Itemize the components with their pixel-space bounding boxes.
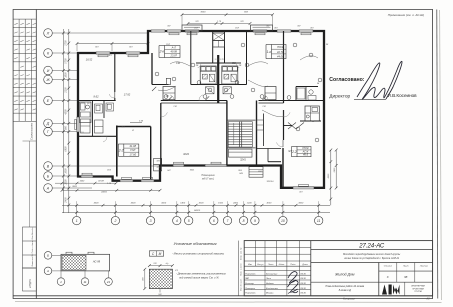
legend symbol CM [149,251,163,256]
kitchen unit cluster [222,66,238,84]
svg-text:1800: 1800 [66,72,68,78]
interior wall left block horizontal corridor [78,100,116,102]
closet boxes near x156 [154,159,162,165]
svg-text:09.16: 09.16 [300,288,306,290]
door leaf with swing arc [160,110,162,117]
axis circle Ж (left) [44,75,53,84]
axis circle И (left) [44,66,53,75]
vent shafts top middle [213,33,225,41]
svg-text:СМ: СМ [262,106,265,108]
svg-text:Володейко переоборудование жил: Володейко переоборудование жилого дома 8… [343,253,400,256]
window, main top wall [185,30,199,33]
svg-text:План-отделочных работ 2А этажа: План-отделочных работ 2А этажа [326,285,365,288]
svg-text:2700: 2700 [66,40,68,47]
axis circle Г (left) [44,127,53,136]
svg-text:Кол.уч: Кол.уч [257,264,264,266]
inner frame left margin line [35,10,37,299]
svg-text:Ж: Ж [45,78,50,82]
bath right block fixtures [297,88,305,99]
svg-text:ОКОН: ОКОН [98,181,104,183]
svg-text:2: 2 [113,219,116,223]
apartment info box [272,45,287,59]
svg-text:Проверил: Проверил [245,288,256,290]
svg-text:- Место установки стиральной м: - Место установки стиральной машины [172,252,224,256]
svg-text:СКЛ: СКЛ [194,28,199,30]
svg-text:- Демонтаж элементов, располож: - Демонтаж элементов, расположенных [176,272,226,276]
svg-text:Разработ.: Разработ. [245,293,256,295]
stage/list header [379,270,433,272]
window, main top wall [151,30,165,33]
svg-text:Директор: Директор [329,94,350,100]
svg-text:Согласовано:: Согласовано: [329,77,364,83]
apartment info box [165,46,181,58]
right block bath walls [296,86,318,88]
window, middle bottom wall [173,164,184,167]
svg-text:44.08: 44.08 [277,55,284,59]
dim line under left-bottom wall [55,182,116,184]
svg-text:Инв. № подл.: Инв. № подл. [240,278,243,291]
shaft strip right of stair [263,114,265,147]
axis circle 4 (bottom) [173,216,181,224]
svg-text:3000: 3000 [266,203,272,205]
svg-text:И.В.Косеинов: И.В.Косеинов [388,93,418,98]
svg-text:7: 7 [227,219,229,223]
svg-text:24000: 24000 [100,191,108,194]
svg-text:2400: 2400 [333,167,336,173]
title block outer [244,241,432,296]
svg-text:46.6: 46.6 [303,153,309,157]
bathroom cluster left block [80,102,92,123]
svg-text:42.70: 42.70 [277,50,284,54]
svg-text:8: 8 [243,219,245,223]
svg-text:ГАП: ГАП [245,277,249,280]
bottom horizontal dimension chains [62,204,330,206]
svg-text:3000: 3000 [199,203,205,205]
plan outer wall outline [78,31,324,188]
svg-text:5: 5 [188,219,190,223]
top dimension line [182,14,273,16]
svg-text:1200: 1200 [66,179,68,185]
lower middle walls near stair exit [268,161,281,163]
svg-text:И: И [47,69,50,73]
signature flourish [357,63,385,100]
svg-text:Н.контр.: Н.контр. [245,283,254,285]
svg-text:1400: 1400 [180,202,186,205]
svg-text:Стадия: Стадия [384,264,393,267]
axis circle А (left) [44,184,53,193]
right block partition vertical [283,31,285,103]
svg-text:Линь: Линь [265,278,271,280]
svg-text:АСЖ: АСЖ [302,149,309,153]
lower-left room top wall [117,126,151,128]
svg-text:2100: 2100 [66,87,68,94]
svg-text:ПОЖ: ПОЖ [277,45,284,49]
svg-text:СМ: СМ [173,106,176,108]
key plan outline [61,254,110,271]
stair stringer rails [238,122,240,148]
svg-text:№док.: №док. [279,263,286,266]
axis circle Д (left) [44,119,53,128]
lower-left room right wall [150,127,152,180]
doc number box [311,249,433,251]
logo glyph [382,285,387,295]
svg-text:49.98: 49.98 [171,50,178,54]
wall between lower-left rooms [116,126,118,177]
door leaf with swing arc [282,140,284,147]
window, middle bottom wall [205,164,227,167]
door leaf with swing arc [101,135,107,137]
axis circle 9 (bottom) [251,216,259,224]
svg-text:ПРОЕКТНАЯ: ПРОЕКТНАЯ [412,287,424,290]
window, left block bottom wall [81,175,93,178]
svg-text:Копировал: Копировал [343,297,356,300]
svg-text:2.2: 2.2 [291,150,297,154]
svg-text:м/б (7 зап.): м/б (7 зап.) [202,178,214,181]
svg-text:ЗК0ЛЫ: ЗК0ЛЫ [267,181,274,183]
svg-text:2400: 2400 [65,197,68,204]
svg-text:2-к: 2-к [159,50,165,54]
left block small rooms walls [92,101,94,137]
window on left wall (vertical) [77,117,80,132]
right vertical dimension chain (lower only) [330,150,332,205]
dim line below left block [62,189,160,191]
svg-text:1000: 1000 [66,168,68,174]
window, main top wall [277,30,291,33]
axis circle Е (left) [44,96,53,105]
left vertical dimension chain [62,29,64,213]
svg-text:Л: Л [46,31,50,35]
svg-text:СКЛ: СКЛ [235,28,240,30]
window, left block top wall [96,52,110,55]
window, main top wall [299,30,313,33]
description box [311,262,433,264]
svg-text:2400: 2400 [232,202,239,205]
svg-text:17.82: 17.82 [124,93,131,97]
svg-text:ЗОЗ: ЗОЗ [107,169,112,171]
balcony bump top 1 [182,25,202,31]
stairwell walls [226,101,228,166]
wall x161 middle-left separation [160,103,162,166]
landing line [227,119,256,121]
stair treads [228,121,252,123]
axis circle 3 (bottom) [146,216,154,224]
door leaf with swing arc [196,62,201,64]
svg-text:41.08: 41.08 [130,144,137,148]
svg-text:Изм: Изм [248,264,252,266]
svg-text:8060: 8060 [201,12,207,14]
firm text lines [404,282,406,296]
svg-text:Подп.и дата: Подп.и дата [31,240,34,254]
svg-text:09.16: 09.16 [300,283,306,285]
axis circle 2 (bottom) [111,216,119,224]
svg-text:24000: 24000 [193,209,201,212]
svg-text:Подп. и дата: Подп. и дата [240,263,243,276]
svg-text:Б: Б [47,254,49,258]
change table grid [244,246,311,248]
svg-text:3241: 3241 [240,157,246,161]
door leaf with swing arc [283,110,285,117]
svg-text:16.52: 16.52 [86,58,93,62]
left margin stamp table [18,19,20,121]
apartment info box [297,147,311,157]
svg-text:1500: 1500 [218,203,224,205]
svg-text:Дата: Дата [301,264,308,266]
svg-text:Ж: Ж [131,130,134,132]
svg-text:Условные обозначения: Условные обозначения [173,241,217,246]
svg-text:6: 6 [213,219,215,223]
svg-text:5700: 5700 [66,58,68,64]
svg-text:09.16: 09.16 [300,293,306,295]
small duct box at end of y84 wall [152,84,169,86]
svg-text:ПОЖ: ПОЖ [302,146,309,150]
secondary top dims [188,23,250,25]
axis circle Л (left) [44,29,53,38]
firm cell with logo [379,281,433,283]
door leaf with swing arc [114,92,116,98]
svg-text:Москва: Москва [266,293,274,295]
svg-text:9: 9 [254,219,256,223]
key plan top bumps [66,252,72,254]
bottom inner frame line [13,295,433,297]
key plan bottom circles [57,278,65,286]
axis circle 5 (bottom) [185,216,193,224]
axis circle 11 (bottom) [315,216,323,224]
svg-text:1: 1 [76,219,78,223]
svg-text:3600: 3600 [131,203,137,205]
door leaf with swing arc [199,100,205,102]
change table header [244,265,311,267]
svg-text:А-Л: А-Л [171,46,177,50]
wall x152 upper separation [151,53,153,85]
key plan axis circle А [44,267,52,275]
svg-text:ЖЗ: ЖЗ [120,127,125,129]
svg-text:ГРУППА: ГРУППА [414,290,422,293]
paper edge shadow [440,10,442,300]
svg-text:А: А [46,269,49,273]
axis circle 10 (bottom) [279,216,287,224]
title block vertical main divisions [310,241,312,296]
interior wall left block vertical [114,53,116,92]
svg-text:ГОЛ: ГОЛ [130,148,135,152]
svg-text:Кондаленко: Кондаленко [266,287,279,290]
key plan hatched part [62,255,86,270]
door leaf with swing arc [262,100,268,102]
signature rows [244,269,311,271]
svg-text:6900: 6900 [66,146,68,152]
svg-text:Взам.инв.№: Взам.инв.№ [31,254,34,267]
door leaf with swing arc [236,62,241,64]
svg-text:9031: 9031 [190,170,195,172]
svg-text:8.62: 8.62 [93,95,99,99]
svg-text:09.16: 09.16 [300,273,306,275]
svg-text:11: 11 [317,219,321,223]
big signature scribbles in sig column [288,272,297,283]
svg-text:8-этаж 1-Д: 8-этаж 1-Д [339,290,352,292]
svg-text:1200: 1200 [247,203,253,205]
stair arrow line [233,123,235,145]
svg-text:27РД/Ус: 27РД/Ус [29,278,32,289]
step wall at 148 [147,31,149,53]
wc small rects [106,103,114,111]
svg-text:М: М [159,252,162,256]
svg-text:Листов: Листов [419,265,429,267]
axis circle В (left) [44,162,53,171]
axis circle К (left) [44,49,53,58]
kitchen-bath horizontal wall [196,62,241,64]
svg-text:Инв.№подл.: Инв.№подл. [31,227,34,240]
svg-text:Лист: Лист [402,265,409,267]
apartment info box [124,144,139,156]
svg-text:3000: 3000 [161,203,167,205]
stamp table scribbles [14,23,17,24]
radiators [98,55,108,57]
window, main top wall [253,30,267,33]
svg-text:Согласованно: Согласованно [30,122,34,140]
kitchen unit cluster [200,66,216,84]
leader curves [248,62,268,66]
svg-text:ИНЖЕНЕРНАЯ: ИНЖЕНЕРНАЯ [411,285,425,288]
left margin attribute boxes [23,227,37,268]
svg-text:98: 98 [404,275,408,279]
svg-text:ЖЗ: ЖЗ [107,55,112,57]
svg-text:2-2: 2-2 [118,148,124,152]
svg-text:Взам. инв. №: Взам. инв. № [240,247,243,260]
svg-text:жилых домов по ул.Гвардейской: жилых домов по ул.Гвардейской г. Бреста … [343,257,400,260]
svg-text:11: 11 [83,280,86,284]
svg-text:А: А [46,186,50,190]
extension stubs above bottom dim line [76,201,78,205]
svg-text:21: 21 [106,280,111,284]
entrance door leafs (diagonal) [168,96,172,100]
svg-text:3243: 3243 [183,152,189,156]
axis circle 1 (bottom) [73,216,81,224]
door leaf with swing arc [168,100,174,102]
window on lower-left room top wall [130,122,142,124]
window, main top wall [167,30,181,33]
svg-text:Д: Д [46,122,50,126]
middle block vertical partitions [190,31,192,85]
svg-text:Жилой Дом: Жилой Дом [334,273,355,277]
svg-text:09.16: 09.16 [300,278,306,280]
svg-text:Подп.: Подп. [290,263,296,266]
svg-text:М.П: М.П [87,103,91,105]
svg-text:Лист: Лист [267,264,274,266]
right block wall y121 [300,120,321,122]
svg-text:4: 4 [176,219,178,223]
vestibule box below stair [229,149,253,157]
porch steps at entrance [249,167,263,178]
left margin empty box divider [28,141,30,227]
right block wall y125 stub [284,125,293,127]
axis circle 7 (bottom) [223,216,231,224]
svg-text:17.60: 17.60 [130,152,137,156]
svg-text:Примечания (см. л. АС-Ш): Примечания (см. л. АС-Ш) [388,13,424,17]
svg-text:под схемой выше марки См. и Ж: под схемой выше марки См. и Ж [179,276,219,280]
svg-text:АС-99: АС-99 [92,260,101,264]
svg-text:3600: 3600 [298,203,304,205]
axis circle 8 (bottom) [239,216,247,224]
svg-text:А3: А3 [426,297,431,300]
svg-text:Найман: Найман [266,282,275,285]
central double wall of kitchens [217,55,219,103]
svg-text:Ж7: Ж7 [287,149,292,153]
corridor walls middle block [161,100,227,102]
window, right block bottom wall [293,186,314,189]
svg-text:10: 10 [281,219,285,223]
sheet name cell [311,281,379,283]
svg-text:Разработ.: Разработ. [245,273,256,275]
legend demolition detail [149,269,172,288]
axis circle Б (left) [44,172,53,181]
small boxes below kitchens [206,87,215,94]
svg-text:3600: 3600 [94,203,100,205]
svg-text:СКЛ: СКЛ [166,44,171,46]
circled callout markers [155,72,159,76]
svg-text:4500: 4500 [65,109,68,115]
right block mid cells [305,106,319,121]
key plan axis circle Б [44,252,52,260]
svg-text:23.97: 23.97 [170,54,178,58]
window, left block top wall [126,52,140,55]
svg-text:1-к: 1-к [267,50,272,54]
dim line over left block [77,43,148,45]
balcony bump top 2 [251,25,273,31]
svg-text:27.24-АС: 27.24-АС [358,244,385,250]
axis circle 6 (bottom) [210,216,218,224]
corridor closets [163,87,175,100]
right block door X diagonals [288,123,296,130]
svg-text:3: 3 [150,219,152,223]
svg-text:Белашевич: Белашевич [266,273,278,275]
